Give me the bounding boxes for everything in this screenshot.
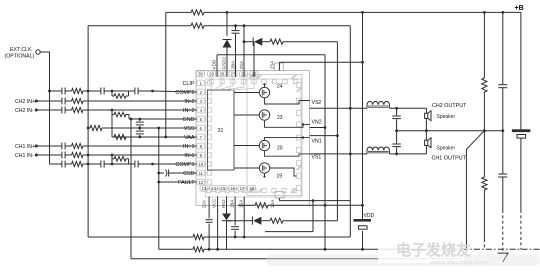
wire CH1IN- to pin9 <box>83 154 197 156</box>
earth ground symbol <box>498 253 509 262</box>
svg-text:VAA: VAA <box>184 135 195 141</box>
node lineA caps <box>234 236 237 239</box>
inductor L1 <box>367 147 389 154</box>
svg-text:+B: +B <box>515 5 524 12</box>
diode D1 bootstrap pin28 to line1 <box>226 12 228 36</box>
transistor Q23 <box>259 110 269 120</box>
svg-text:24: 24 <box>277 84 283 90</box>
svg-text:www.elecfans.com: www.elecfans.com <box>429 260 488 267</box>
svg-text:29: 29 <box>209 72 214 77</box>
wire pin17 down <box>243 197 245 238</box>
transistor Q24 <box>259 87 269 97</box>
svg-text:1BA: 1BA <box>230 200 235 208</box>
transistor Q19 <box>259 163 269 173</box>
parallel RC comp2: hanging resistor <box>111 91 113 96</box>
svg-text:12: 12 <box>198 180 203 185</box>
svg-text:10: 10 <box>198 162 203 167</box>
wire Q23 to VN2 pad <box>265 120 304 127</box>
wire FAULT row <box>159 181 197 183</box>
resistor R-comp2a <box>72 88 84 93</box>
capacitor C27 pin27 to line2 <box>235 26 237 30</box>
wire Q24 to VS2 pad <box>265 98 310 104</box>
wire V350 vertical <box>349 26 351 237</box>
node line1/V502 <box>501 11 504 14</box>
resistor R-in1 hang from row155 <box>111 155 113 159</box>
wire top rail to +B <box>166 11 188 13</box>
node comp1 par left <box>111 163 114 166</box>
wire CH1IN+ to pin8 <box>83 145 197 147</box>
svg-text:13: 13 <box>202 186 207 191</box>
wire COMP1 row left from EXT CLK vertical <box>50 163 62 165</box>
op-amp U1 die block pin 31 <box>208 90 235 170</box>
wire V112 hang node to VAA row <box>111 110 113 137</box>
resistor R-vss <box>90 125 102 130</box>
svg-text:CH1 OUTPUT: CH1 OUTPUT <box>432 155 467 161</box>
wire Q20 top to VN1 pad <box>265 138 304 141</box>
svg-text:GND: GND <box>183 117 195 123</box>
wire V131 vertical to LINE_C <box>130 119 132 259</box>
capacitor C-out2 <box>396 108 398 115</box>
svg-text:19: 19 <box>277 174 283 180</box>
capacitor C-comp2b <box>100 88 102 95</box>
node comp2 rc-par left <box>111 90 114 93</box>
capacitor C-vss-vaa <box>139 128 141 130</box>
svg-text:CH1 IN-: CH1 IN- <box>15 153 34 159</box>
node in+2/hang resistor <box>111 109 114 112</box>
row VSS wire <box>88 127 90 129</box>
inductor L2 <box>367 101 389 108</box>
node line2/pin26 wire <box>243 24 246 27</box>
capacitor C-comp2a <box>61 88 63 95</box>
svg-text:Speaker: Speaker <box>437 114 456 120</box>
node line2/cap27 <box>234 24 237 27</box>
battery B1 <box>520 12 522 129</box>
wire V337 vertical <box>336 42 338 221</box>
node lineB junctions <box>208 248 211 251</box>
node vss cap <box>138 127 141 130</box>
wire V325 right vertical <box>324 55 326 250</box>
transistor Q20 <box>259 140 269 150</box>
wire LINE_B y249 <box>159 248 190 250</box>
wire stub y231.6 <box>265 231 313 233</box>
node comp2 rc-par right <box>151 90 154 93</box>
svg-text:VDD: VDD <box>212 59 217 69</box>
resistor line y205.3 <box>238 204 255 206</box>
node resline/V325 <box>324 204 327 207</box>
node L1/C-out1 <box>395 153 398 156</box>
svg-text:VS2: VS2 <box>312 100 322 106</box>
resistor R-lineB <box>193 247 204 252</box>
row VAA wire <box>112 136 197 138</box>
wire comp2 to pin2 <box>153 91 197 92</box>
svg-text:22A: 22A <box>202 200 207 208</box>
resistor R-comp1a <box>72 161 84 166</box>
wire pin14 down <box>217 197 219 250</box>
svg-text:VN1: VN1 <box>312 139 322 145</box>
node comp2/V88 <box>87 90 90 93</box>
capacitor C-gnd-vss <box>139 119 141 121</box>
resistor input CH1 IN+ <box>72 143 84 148</box>
wire Q20 bottom to VS1 pad <box>265 151 310 157</box>
node gnd/V131 <box>130 118 133 121</box>
resistor R-line2 <box>191 23 204 28</box>
wire V502 from line1 <box>502 12 504 84</box>
resistor R-line1 <box>191 10 204 15</box>
svg-text:1SA: 1SA <box>239 200 244 208</box>
node padline/V313 <box>312 199 315 202</box>
wire mid line <box>397 130 503 132</box>
node line1/V484 <box>483 11 486 14</box>
wire LINE_C y259 <box>131 258 462 260</box>
node comp1/V88 <box>87 163 90 166</box>
svg-text:2BA: 2BA <box>231 60 236 70</box>
capacitor C-up right <box>498 84 507 86</box>
bottom-right pad VS1A <box>275 192 284 199</box>
resistor R-low right <box>482 177 487 190</box>
node vss/V88 <box>87 127 90 130</box>
node L2/C-out2 <box>395 107 398 110</box>
capacitor input CH2 IN- <box>61 107 63 114</box>
svg-text:COMP2: COMP2 <box>175 90 194 96</box>
capacitor C-comp2par on row <box>112 90 135 92</box>
capacitor C-out1 <box>396 131 398 144</box>
node V158.8/VSS row <box>157 127 160 130</box>
capacitor C-comp1a <box>61 161 63 168</box>
row GND wire <box>129 118 197 120</box>
svg-text:IN-2: IN-2 <box>184 99 194 105</box>
svg-text:CSD: CSD <box>183 171 194 177</box>
speaker CH2 <box>425 113 428 118</box>
resistor R-in2 hang to GND row <box>112 114 114 116</box>
wire V484 from line1 <box>483 12 485 78</box>
svg-text:18: 18 <box>249 186 254 191</box>
wire V313 down <box>312 201 314 232</box>
diode D4 horizontal <box>243 220 252 222</box>
wire speaker CH2 bottom to midline <box>425 118 427 130</box>
svg-text:16: 16 <box>230 186 235 191</box>
svg-text:15: 15 <box>221 186 226 191</box>
capacitor C-comp1b <box>100 161 102 168</box>
diode D2 with resistor to V337 <box>244 41 253 43</box>
wire midline to CH1 speaker top <box>425 131 427 141</box>
node extclk/comp2 <box>48 90 51 93</box>
wire V88 from line2 to LINE_A <box>87 26 89 237</box>
wire pad line y62.3 <box>278 62 280 70</box>
svg-text:VSS: VSS <box>184 126 195 132</box>
resistor input CH2 IN- <box>72 107 84 112</box>
wire pin16 down with capacitor C16 <box>234 197 236 226</box>
resistor R-d4 <box>270 218 283 223</box>
svg-text:VS1: VS1 <box>312 155 322 161</box>
resistor R-lineA <box>193 234 204 239</box>
capacitor C-csd <box>157 172 160 175</box>
node line1/V362 <box>361 11 364 14</box>
capacitor input CH1 IN- <box>61 152 63 159</box>
svg-text:EXT CLK: EXT CLK <box>10 47 32 53</box>
svg-text:17: 17 <box>240 186 245 191</box>
wire V165.8 from line1 to VAA row <box>165 12 167 137</box>
svg-text:30: 30 <box>198 72 203 77</box>
parallel RC comp1: hanging resistor above <box>111 159 113 164</box>
wire LINE_A y237 <box>88 236 190 238</box>
wire V362 vertical <box>362 12 364 219</box>
wire pin13 down with capacitor C13 <box>208 197 210 219</box>
speaker CH1 <box>425 145 427 154</box>
wire pad VS1A line y200 <box>278 198 280 201</box>
resistor R-up right <box>482 78 487 92</box>
wire CH2IN- to pin4 <box>83 109 197 111</box>
svg-text:HS2: HS2 <box>221 199 226 208</box>
svg-text:31: 31 <box>218 128 224 134</box>
node line1/diode <box>226 11 229 14</box>
svg-text:Speaker: Speaker <box>437 145 456 151</box>
node diode line start <box>243 40 246 43</box>
wire return diagonal from midline to LINE_B <box>483 129 486 132</box>
resistor input CH2 IN+ <box>72 98 84 103</box>
svg-text:VDD: VDD <box>364 213 375 219</box>
svg-text:23: 23 <box>277 115 283 121</box>
svg-text:IN-1: IN-1 <box>184 153 194 159</box>
svg-text:1SA: 1SA <box>270 200 275 208</box>
svg-text:CH1 IN+: CH1 IN+ <box>15 144 35 150</box>
svg-text:VN2: VN2 <box>312 120 322 126</box>
svg-text:11: 11 <box>199 171 204 176</box>
node gnd cap <box>138 118 141 121</box>
svg-text:GSD2: GSD2 <box>222 57 227 70</box>
svg-text:20: 20 <box>277 146 283 152</box>
node in-1 hang <box>111 154 114 157</box>
watermark band <box>266 255 540 267</box>
svg-text:28: 28 <box>220 72 225 77</box>
svg-text:VCC: VCC <box>212 199 217 208</box>
resistor R-vaa <box>114 134 126 139</box>
node vaa cap <box>138 136 141 139</box>
svg-text:COMP1: COMP1 <box>175 162 194 168</box>
svg-text:电子发烧友: 电子发烧友 <box>396 241 471 259</box>
svg-text:IN+1: IN+1 <box>183 144 195 150</box>
capacitor input CH1 IN+ <box>61 143 63 150</box>
wire to CH2 speaker <box>425 108 427 113</box>
wire rail line2 <box>88 25 188 27</box>
top-right pad VS2A <box>275 63 284 71</box>
svg-text:IN+2: IN+2 <box>183 108 195 114</box>
svg-text:(OPTIONAL): (OPTIONAL) <box>5 53 35 59</box>
dashed grounds right <box>483 239 485 249</box>
svg-text:2SA: 2SA <box>270 61 275 69</box>
wire EXT CLK down to COMP1 row <box>49 52 51 164</box>
svg-text:CH2 IN+: CH2 IN+ <box>15 99 35 105</box>
capacitor input CH2 IN+ <box>61 98 63 105</box>
svg-text:CLIP: CLIP <box>183 81 195 87</box>
wire Q19 stub <box>263 175 265 177</box>
capacitor C-low right <box>498 173 507 175</box>
wire V158.8 service vertical from VSS row <box>158 128 160 249</box>
capacitor C-comp1par <box>112 163 135 165</box>
wire pin26 to line2 <box>243 26 245 77</box>
wire COMP2 row <box>50 90 62 92</box>
svg-text:14: 14 <box>211 186 216 191</box>
resistor input CH1 IN- <box>72 152 84 157</box>
wire pin25 stub to diode cathode <box>253 42 255 77</box>
wire CH2IN+ to pin3 <box>83 100 197 102</box>
op-amp U1 package outline (class-D amplifier IC, gray land pattern) <box>196 71 310 206</box>
svg-text:FAULT: FAULT <box>178 180 195 186</box>
svg-text:2SA: 2SA <box>239 60 244 70</box>
wire VDD pin to top line y55 <box>216 55 218 77</box>
svg-text:CH2 IN-: CH2 IN- <box>15 108 34 114</box>
svg-text:CH2 OUTPUT: CH2 OUTPUT <box>432 103 467 109</box>
diode D3 down on pin15 <box>226 197 228 214</box>
wire comp1 to pin10 <box>153 163 197 165</box>
dashed bottom bus <box>462 248 540 250</box>
wire diode line2 from D3 bar <box>227 220 244 222</box>
node pad-line/V362 <box>361 61 364 64</box>
